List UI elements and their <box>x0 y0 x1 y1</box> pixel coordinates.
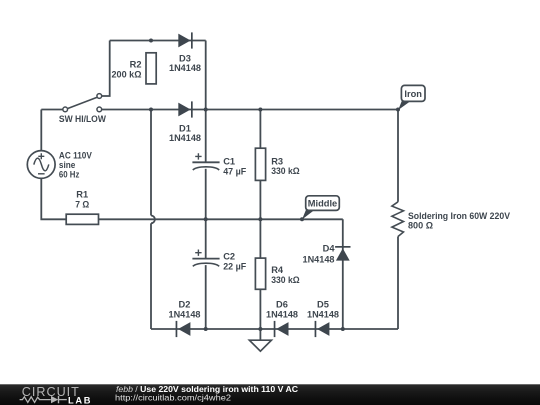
capacitor C2 top plate <box>192 258 219 260</box>
ground symbol <box>249 340 271 351</box>
AC source sine wave <box>34 158 49 171</box>
footer logo diode <box>51 396 58 403</box>
wire top rail <box>110 40 206 42</box>
svg-text:C1: C1 <box>223 156 235 166</box>
svg-text:1N4148: 1N4148 <box>169 133 201 143</box>
svg-text:D2: D2 <box>179 300 191 310</box>
soldering iron heater zigzag <box>392 202 404 237</box>
junction C2 bottom <box>204 327 208 331</box>
svg-text:SW HI/LOW: SW HI/LOW <box>59 114 106 124</box>
svg-text:R1: R1 <box>76 190 88 200</box>
svg-text:22 µF: 22 µF <box>223 262 246 272</box>
junction R2 top <box>149 39 153 43</box>
svg-text:R2: R2 <box>130 59 142 69</box>
resistor R1 <box>66 214 98 224</box>
junction ground node <box>258 327 262 331</box>
switch SW HI/LOW blade <box>67 97 97 108</box>
svg-text:1N4148: 1N4148 <box>266 309 298 319</box>
footer logo wire zigzag <box>20 397 51 403</box>
node flag Iron <box>401 85 425 101</box>
wire AC source top lead <box>40 110 42 151</box>
wire R4 top lead <box>259 219 261 258</box>
diode D2 <box>176 321 191 337</box>
svg-text:1N4148: 1N4148 <box>303 254 335 264</box>
svg-text:Middle: Middle <box>308 198 337 208</box>
resistor R2 <box>146 53 156 84</box>
capacitor C2 curved plate <box>193 263 219 266</box>
switch common contact circle <box>63 107 68 112</box>
junction R3/R4 middle rail <box>258 217 262 221</box>
AC source V1 circle <box>27 151 55 179</box>
wire right vertical upper (Iron drop) <box>397 110 399 202</box>
resistor R3 <box>255 148 265 180</box>
AC source minus sign <box>38 173 45 175</box>
svg-text:sine: sine <box>59 160 76 170</box>
wire AC source bottom lead to R1 <box>41 178 66 219</box>
svg-text:47 µF: 47 µF <box>223 166 246 176</box>
svg-text:Iron: Iron <box>404 89 422 99</box>
svg-text:LAB: LAB <box>68 396 92 405</box>
svg-text:D6: D6 <box>276 300 288 310</box>
wire x=151 vertical lower <box>150 223 152 329</box>
junction Iron corner <box>396 108 400 112</box>
svg-text:R4: R4 <box>271 265 284 275</box>
svg-text:D5: D5 <box>317 300 329 310</box>
diode D5 <box>315 321 330 337</box>
junction switch/R2 <box>149 108 153 112</box>
svg-text:7 Ω: 7 Ω <box>75 199 89 209</box>
svg-text:1N4148: 1N4148 <box>307 309 339 319</box>
svg-text:C2: C2 <box>223 252 235 262</box>
svg-text:200 kΩ: 200 kΩ <box>112 69 143 79</box>
AC source plus sign <box>38 153 44 159</box>
svg-text:330 kΩ: 330 kΩ <box>271 275 300 285</box>
diode D3 <box>178 32 192 48</box>
svg-text:1N4148: 1N4148 <box>169 309 201 319</box>
diode D4 <box>335 246 350 261</box>
wire C1 bottom lead <box>205 169 207 220</box>
switch lower throw contact circle <box>97 107 102 112</box>
svg-text:R3: R3 <box>271 156 283 166</box>
wire D4 branch corner down <box>342 219 344 329</box>
wire left stub to switch common <box>41 109 63 111</box>
junction Middle node <box>300 217 304 221</box>
diode D6 <box>274 321 289 337</box>
svg-text:D4: D4 <box>323 244 336 254</box>
svg-text:D3: D3 <box>179 53 191 63</box>
wire C2 branch <box>205 219 207 258</box>
wire switch upper throw to top rail <box>102 41 110 97</box>
wire R3 top lead <box>259 110 261 149</box>
node flag Iron tail <box>398 100 410 110</box>
wire ground stub <box>259 329 261 340</box>
junction C1/C2 middle rail <box>204 217 208 221</box>
wire top-right corner down to mid rail <box>205 41 207 110</box>
junction R3 top <box>258 108 262 112</box>
wire middle rail y=219 <box>99 218 343 220</box>
svg-text:http://circuitlab.com/cj4whe2: http://circuitlab.com/cj4whe2 <box>115 392 231 402</box>
junction D1 cathode node <box>204 108 208 112</box>
wire C2 bottom lead <box>205 265 207 329</box>
svg-text:1N4148: 1N4148 <box>169 63 201 73</box>
wire bottom rail <box>151 328 398 330</box>
node flag Middle tail <box>302 208 314 219</box>
wire mid rail from switch to Iron corner <box>102 109 398 111</box>
footer bar <box>0 384 540 405</box>
wire R4 bottom lead <box>259 289 261 329</box>
wire x=151 vertical upper <box>150 110 152 216</box>
svg-text:330 kΩ: 330 kΩ <box>271 166 300 176</box>
capacitor C1 plus sign <box>195 153 201 159</box>
diode D1 <box>178 101 192 117</box>
capacitor C1 top plate <box>192 161 219 163</box>
svg-text:D1: D1 <box>179 123 191 133</box>
capacitor C2 plus sign <box>195 250 201 256</box>
svg-text:800 Ω: 800 Ω <box>408 221 434 231</box>
node flag Middle <box>306 196 340 211</box>
svg-text:Soldering Iron 60W 220V: Soldering Iron 60W 220V <box>408 211 511 221</box>
junction D4 bottom <box>341 327 345 331</box>
wire right vertical lower <box>397 237 399 330</box>
wire C1 branch <box>205 110 207 162</box>
capacitor C1 curved plate <box>193 167 219 170</box>
wire hop over middle rail <box>151 216 155 224</box>
svg-text:AC 110V: AC 110V <box>59 151 93 161</box>
switch upper throw contact circle <box>97 94 102 99</box>
resistor R4 <box>255 258 265 289</box>
svg-text:60 Hz: 60 Hz <box>59 170 80 180</box>
wire R3 bottom lead <box>259 180 261 219</box>
